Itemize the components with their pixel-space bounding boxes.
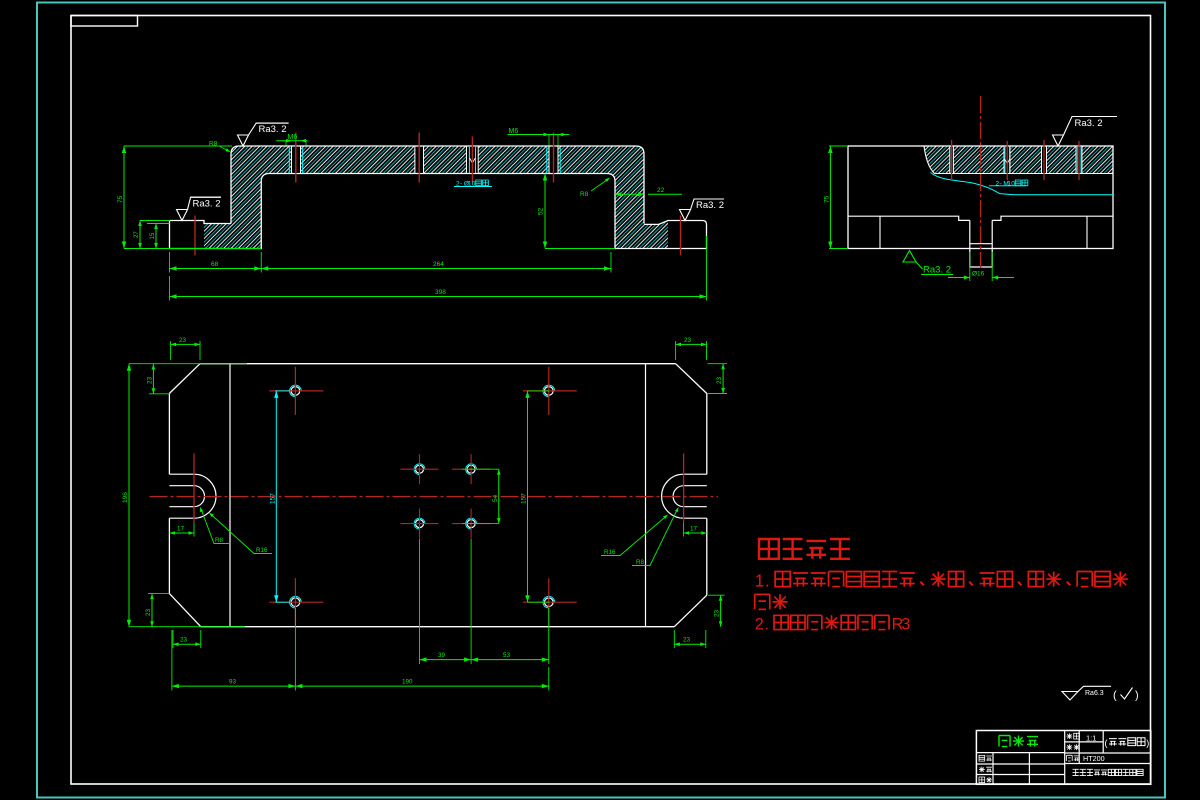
svg-text:23: 23	[145, 608, 152, 616]
svg-text:R8: R8	[580, 191, 589, 198]
surface finish Ra3.2 aux bottom (green)	[903, 251, 916, 263]
centerline taper pin hole	[471, 137, 473, 183]
chamfer dim 23 top-left horizontal	[170, 341, 172, 360]
centerline hole M6 right	[553, 133, 555, 183]
title block label checker	[979, 767, 985, 773]
dimension 22 wall thickness	[615, 193, 637, 195]
chamfer dim 23 top-left vertical	[152, 364, 154, 394]
corner mounting hole top-left	[291, 387, 300, 396]
dimension 40 center hole rows	[498, 469, 500, 523]
svg-text:22: 22	[657, 187, 665, 194]
svg-text:196: 196	[122, 492, 129, 503]
svg-text:75: 75	[117, 195, 124, 203]
dimension 68	[169, 252, 171, 273]
svg-text:Ra3. 2: Ra3. 2	[1075, 118, 1103, 129]
technical requirements line 2	[755, 594, 770, 609]
svg-text:): )	[1146, 738, 1149, 748]
svg-text:23: 23	[684, 337, 692, 344]
title block frame	[976, 731, 1150, 785]
svg-text:1:1: 1:1	[1086, 733, 1096, 742]
aux joint line right	[1086, 216, 1088, 248]
general surface finish note	[1062, 692, 1078, 701]
svg-text:R16: R16	[256, 547, 268, 554]
centerline plain hole	[418, 133, 420, 183]
leader R8 right slot	[632, 509, 678, 566]
dimension 58 to corner hole	[548, 608, 550, 664]
aux top plate step recess	[848, 216, 1113, 220]
title block label scale	[1067, 733, 1073, 739]
title block school name	[1073, 769, 1079, 775]
svg-text:2: 2	[755, 616, 764, 634]
svg-text:Ra6.3: Ra6.3	[1085, 690, 1104, 697]
surface finish Ra3.2 right flange	[680, 210, 691, 221]
svg-text:-: -	[999, 181, 1001, 188]
svg-text:53: 53	[503, 652, 511, 659]
svg-text:157: 157	[521, 493, 528, 504]
title block label drafter	[979, 755, 985, 761]
svg-text:M6: M6	[288, 134, 298, 141]
svg-text:157: 157	[270, 493, 277, 504]
plan inner wall line left	[229, 364, 231, 627]
band bottom edge	[935, 173, 1114, 175]
dimension hole dia bottom	[969, 252, 971, 281]
center hole D	[467, 520, 475, 528]
corner mounting hole bottom-right	[545, 598, 554, 607]
svg-text:): )	[1135, 690, 1139, 702]
svg-text:.: .	[765, 571, 770, 591]
main section view outline	[170, 221, 232, 224]
break line (cyan)	[931, 173, 1114, 195]
dimension 75 overall height left	[123, 146, 125, 249]
aux joint line left	[879, 216, 881, 248]
title block label approver	[979, 777, 985, 783]
surface finish Ra3.2 top of plate	[238, 135, 249, 146]
chamfer dim 23 bottom-left vertical	[151, 594, 153, 627]
svg-text:.: .	[764, 616, 769, 634]
svg-text:Ra3. 2: Ra3. 2	[193, 198, 221, 209]
leader R16 right slot	[601, 516, 667, 556]
leader R16 left slot	[210, 514, 272, 554]
surface finish Ra3.2 aux top (white)	[1053, 135, 1064, 146]
svg-text:23: 23	[716, 376, 723, 384]
aux main axis centerline	[980, 96, 982, 268]
dimension 52 inner height	[544, 174, 546, 249]
svg-text:Ra3. 2: Ra3. 2	[696, 200, 724, 211]
corner mounting hole bottom-left	[291, 598, 300, 607]
centerline left flange hole	[194, 216, 196, 256]
dimension 39 center holes horizontal	[419, 539, 421, 664]
chamfer dim 23 bottom-right horizontal	[673, 630, 675, 648]
svg-text:75: 75	[823, 195, 830, 203]
title block inner lines	[1064, 731, 1066, 785]
svg-text:190: 190	[402, 678, 413, 685]
right slot centerline	[683, 454, 685, 523]
svg-text:0: 0	[1011, 181, 1015, 188]
svg-text:M6: M6	[509, 128, 519, 135]
svg-text:264: 264	[433, 261, 444, 268]
svg-text:27: 27	[134, 231, 140, 238]
section bottom edge right flange	[614, 248, 707, 250]
svg-text:39: 39	[438, 652, 446, 659]
aux hole plain 1	[950, 147, 954, 173]
svg-text:54: 54	[492, 494, 499, 502]
aux boss bottom	[970, 266, 992, 268]
svg-text:23: 23	[714, 609, 721, 617]
svg-text:Ra3. 2: Ra3. 2	[259, 124, 287, 135]
dimension 195 plan overall height	[128, 364, 130, 627]
plan view outline with chamfers	[169, 364, 706, 394]
svg-text:23: 23	[179, 337, 187, 344]
dimension 20 flange height	[139, 221, 141, 249]
dimension 75 aux height	[829, 146, 831, 249]
svg-text:(: (	[1113, 690, 1117, 702]
corner mounting hole top-right	[545, 387, 554, 396]
left U-slot	[169, 474, 194, 518]
title block part name (green)	[999, 736, 1010, 747]
svg-text:52: 52	[538, 207, 545, 215]
tapped hole M6 left in top plate	[292, 147, 301, 173]
centerline right flange hole	[680, 216, 682, 256]
aux hole plain 2	[1042, 147, 1047, 173]
dimension 157 green between right corner holes	[527, 391, 529, 602]
aux hole tapped M10	[1004, 147, 1010, 173]
aux hole tapped 2	[1076, 147, 1082, 173]
dimension 91 bottom left	[171, 630, 173, 691]
main section view hatched body	[204, 146, 668, 249]
taper pin hole 2-Ø10 in top plate	[467, 147, 479, 173]
plan inner wall line right	[645, 364, 647, 627]
left slot centerline	[193, 454, 195, 523]
svg-text:17: 17	[690, 526, 698, 533]
surface finish Ra3.2 left flange	[177, 210, 188, 221]
svg-text:R16: R16	[604, 549, 616, 556]
leader R8 left slot	[201, 509, 231, 544]
title block label qty	[1067, 744, 1073, 750]
chamfer dim 23 top-right horizontal	[675, 341, 677, 360]
dimension M6 left	[276, 140, 307, 142]
center hole A	[416, 465, 424, 473]
right U-slot	[684, 474, 707, 518]
centerline hole M6 left	[295, 133, 297, 183]
svg-text:17: 17	[177, 526, 185, 533]
dimension 398	[706, 236, 708, 301]
plan main horizontal centerline	[150, 496, 719, 498]
dimension 264	[610, 252, 612, 273]
slot dim 17 left	[193, 523, 195, 537]
aux view outline	[848, 146, 1113, 249]
slot dim 17 right	[683, 523, 685, 537]
dimension 157 cyan between left corner holes	[275, 391, 277, 602]
svg-text:23: 23	[146, 376, 153, 384]
svg-text:Ra3. 2: Ra3. 2	[923, 265, 951, 276]
svg-text:23: 23	[683, 637, 691, 644]
svg-text:93: 93	[229, 678, 237, 685]
section bottom edge left flange	[169, 248, 262, 250]
tapped hole M6 right in top plate	[549, 147, 558, 173]
plain hole in top plate	[415, 147, 424, 173]
svg-text:(: (	[1105, 738, 1108, 748]
svg-text:3: 3	[901, 616, 910, 634]
svg-text:15: 15	[150, 232, 156, 239]
title block label material	[1067, 755, 1073, 761]
svg-text:1: 1	[755, 571, 765, 591]
dimension 18 step height	[155, 224, 157, 249]
chamfer dim 23 top-right vertical	[722, 364, 724, 394]
dimension M6 right with leader	[508, 134, 570, 136]
svg-text:R8: R8	[636, 559, 645, 566]
svg-text:23: 23	[180, 637, 188, 644]
border corner reference box	[71, 16, 138, 27]
aux counterbore line	[970, 243, 992, 245]
technical requirements title	[759, 539, 779, 559]
chamfer dim 23 bottom-right vertical	[720, 595, 722, 627]
aux view hatched band (local section)	[924, 146, 1113, 174]
svg-text:HT200: HT200	[1083, 754, 1105, 763]
dimension 189 bottom	[548, 667, 550, 691]
chamfer dim 23 bottom-left horizontal	[172, 630, 174, 648]
center hole B	[467, 465, 475, 473]
aux center hole walls	[969, 220, 971, 267]
local section boundary curve	[924, 146, 935, 174]
svg-text:R8: R8	[215, 537, 224, 544]
svg-text:Ø16: Ø16	[972, 271, 985, 278]
svg-text:68: 68	[211, 261, 219, 268]
center hole C	[416, 520, 424, 528]
svg-text:398: 398	[435, 289, 446, 296]
